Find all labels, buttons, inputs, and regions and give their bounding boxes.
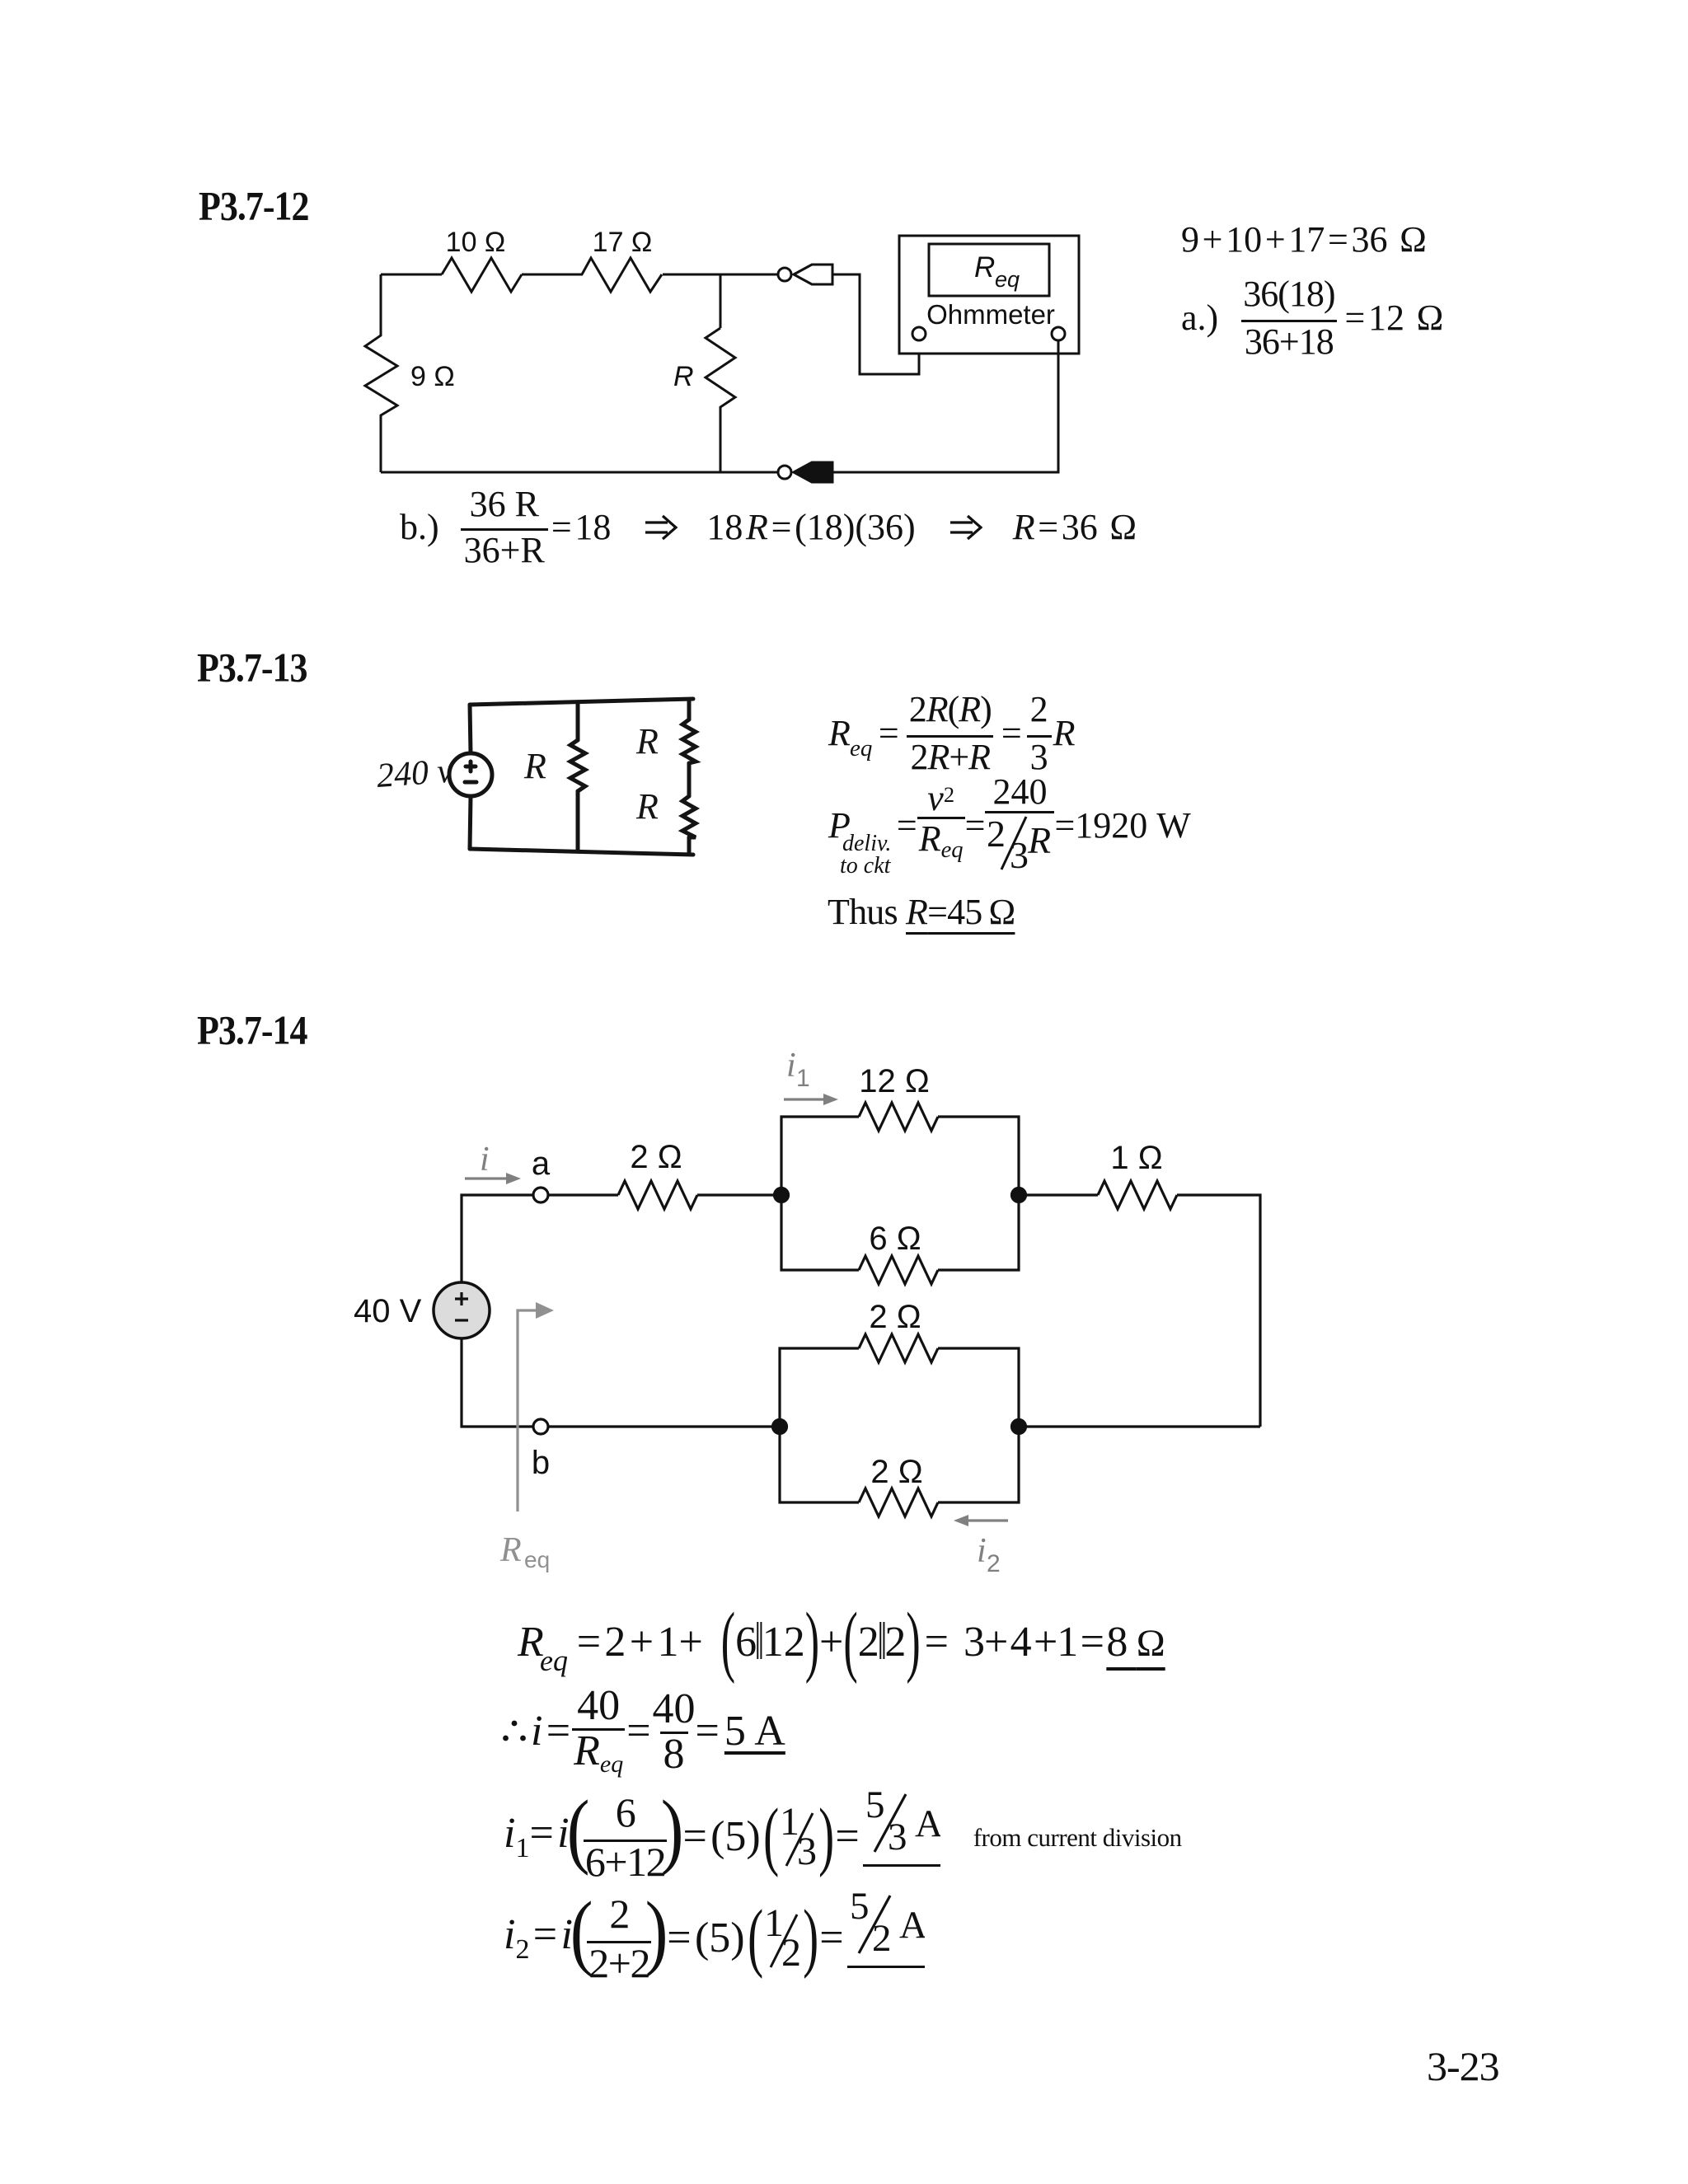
circuit P3.7-13 hand-drawn schematic xyxy=(363,684,717,878)
svg-text:R: R xyxy=(635,721,659,762)
wire node3 down branch 2ohm bottom xyxy=(780,1427,859,1502)
wire node1 up xyxy=(781,1117,859,1195)
equation Req = 2R(R)/2R+R xyxy=(828,695,1076,772)
heading P3.7-13 xyxy=(197,648,307,688)
svg-text:i: i xyxy=(786,1047,796,1085)
wire 2ohm to node1 xyxy=(697,1193,781,1196)
svg-text:R: R xyxy=(1027,819,1051,861)
heading P3.7-12 xyxy=(199,186,309,227)
wire top-left xyxy=(381,274,442,276)
svg-text:A: A xyxy=(915,1802,940,1845)
svg-text:R: R xyxy=(499,1531,522,1569)
svg-text:240 v: 240 v xyxy=(375,752,453,795)
svg-text:R: R xyxy=(635,786,659,827)
wire top xyxy=(470,699,693,705)
node b terminal xyxy=(533,1419,548,1434)
wire source top xyxy=(462,1195,533,1282)
svg-text:3: 3 xyxy=(888,1816,907,1855)
svg-text:40 V: 40 V xyxy=(354,1293,422,1329)
wire b to node3 xyxy=(548,1425,780,1427)
ohmmeter box xyxy=(899,236,1079,354)
svg-text:R: R xyxy=(673,361,694,392)
resistor 1ohm xyxy=(1098,1181,1177,1209)
svg-text:Ohmmeter: Ohmmeter xyxy=(926,299,1055,330)
connector circle top xyxy=(778,268,791,281)
plus sign xyxy=(466,762,476,771)
one third diagonal fraction xyxy=(780,1805,818,1869)
wire R bottom xyxy=(720,419,722,472)
svg-text:10 Ω: 10 Ω xyxy=(446,227,506,258)
svg-text:R: R xyxy=(523,746,546,786)
svg-text:3: 3 xyxy=(1010,834,1029,871)
svg-text:R: R xyxy=(974,251,995,284)
plus sign xyxy=(455,1292,468,1305)
svg-text:5: 5 xyxy=(865,1789,885,1826)
wire 1ohm to right edge xyxy=(1177,1195,1260,1427)
svg-text:2 Ω: 2 Ω xyxy=(870,1454,922,1490)
wire 12ohm right xyxy=(938,1117,1019,1195)
wire plug top to ohmmeter xyxy=(832,274,919,374)
wire source bottom xyxy=(470,796,471,849)
resistor R right-top xyxy=(682,719,696,763)
wire node4 to right edge xyxy=(1019,1425,1260,1427)
wire top right to plug xyxy=(663,274,778,276)
svg-text:eq: eq xyxy=(995,267,1020,292)
wire source bottom xyxy=(462,1338,533,1427)
svg-text:2: 2 xyxy=(987,815,1006,855)
resistor R xyxy=(706,328,735,419)
node 4 dot xyxy=(1012,1420,1026,1434)
therefore symbol xyxy=(503,1720,526,1743)
resistor 2ohm middle xyxy=(859,1334,938,1362)
plug open top xyxy=(794,265,832,284)
wire between 10ohm and 17ohm xyxy=(522,274,583,276)
five halves diagonal fraction underlined xyxy=(847,1891,925,1968)
equation Req = 2+1+ ... xyxy=(518,1610,1165,1675)
resistor 6ohm xyxy=(859,1256,938,1284)
svg-text:2: 2 xyxy=(781,1931,801,1971)
svg-text:eq: eq xyxy=(524,1547,550,1572)
resistor 2ohm bottom xyxy=(859,1488,938,1516)
terminal left xyxy=(912,327,926,340)
wire node2 to 1ohm xyxy=(1019,1193,1098,1196)
wire 2ohm middle right xyxy=(938,1348,1019,1427)
svg-text:9 Ω: 9 Ω xyxy=(410,361,455,392)
circuit P3.7-12 schematic xyxy=(354,216,1096,492)
equation P deliv xyxy=(828,785,1191,867)
node 1 dot xyxy=(775,1188,789,1202)
wire bottom xyxy=(381,471,778,474)
wire 2ohm bottom right xyxy=(938,1427,1019,1502)
implies arrow xyxy=(644,514,678,541)
node 3 dot xyxy=(773,1420,787,1434)
equation 9+10+17=36 xyxy=(1181,222,1427,258)
wire bottom xyxy=(470,849,693,855)
resistor 10ohm xyxy=(442,258,522,292)
ohmmeter display box xyxy=(929,244,1049,296)
Req measurement arrow xyxy=(518,1310,536,1511)
equation Thus R=45 xyxy=(828,894,1015,930)
svg-text:1 Ω: 1 Ω xyxy=(1110,1140,1162,1176)
right branch wire top xyxy=(687,700,692,719)
resistor 9ohm left vertical xyxy=(365,274,397,472)
svg-text:i: i xyxy=(977,1532,987,1570)
resistor R right-bottom xyxy=(682,796,696,837)
minus sign xyxy=(455,1319,468,1321)
plug filled bottom xyxy=(794,462,832,482)
svg-text:12 Ω: 12 Ω xyxy=(859,1063,930,1099)
equation i = 40/Req xyxy=(503,1692,785,1771)
svg-text:3: 3 xyxy=(797,1830,817,1869)
page number xyxy=(1427,2046,1499,2087)
svg-text:2: 2 xyxy=(872,1917,892,1957)
resistor 17ohm xyxy=(582,258,662,292)
wire node1 down to 6ohm xyxy=(781,1195,859,1270)
one half diagonal fraction xyxy=(764,1906,802,1971)
current i1 arrow xyxy=(784,1098,823,1100)
current i2 arrow xyxy=(968,1519,1008,1521)
wire right terminal down xyxy=(832,340,1058,472)
svg-text:17 Ω: 17 Ω xyxy=(593,227,653,258)
connector circle bottom xyxy=(778,466,791,479)
equation i1 current division xyxy=(504,1797,1182,1877)
wire node3 up branch 2ohm xyxy=(780,1348,859,1427)
svg-text:5: 5 xyxy=(850,1891,870,1928)
equation i2 current division xyxy=(504,1899,925,1978)
five thirds diagonal fraction underlined xyxy=(863,1789,940,1867)
middle branch wire bottom xyxy=(576,791,580,851)
wire a to 2ohm xyxy=(548,1193,618,1196)
svg-text:6 Ω: 6 Ω xyxy=(869,1221,921,1257)
heading P3.7-14 xyxy=(197,1010,307,1051)
voltage source 40V xyxy=(434,1282,490,1338)
voltage source 240v circle xyxy=(449,753,492,796)
wire source top xyxy=(470,705,471,753)
current i arrow xyxy=(465,1177,506,1179)
svg-text:A: A xyxy=(899,1904,925,1947)
terminal right xyxy=(1052,327,1065,340)
equation a.) xyxy=(1181,279,1443,358)
resistor 2ohm top xyxy=(618,1181,697,1209)
node junction vertical R top xyxy=(720,274,722,328)
svg-text:2: 2 xyxy=(987,1550,1001,1577)
minus sign xyxy=(465,780,476,785)
wire between right resistors xyxy=(687,763,692,796)
implies arrow xyxy=(949,514,983,541)
svg-text:1: 1 xyxy=(796,1065,810,1092)
svg-text:b: b xyxy=(532,1445,550,1481)
node 2 dot xyxy=(1012,1188,1026,1202)
svg-text:i: i xyxy=(480,1141,490,1179)
middle branch wire top xyxy=(576,702,580,740)
resistor R middle xyxy=(570,740,585,791)
svg-text:2 Ω: 2 Ω xyxy=(630,1139,682,1175)
circuit P3.7-14 schematic xyxy=(338,1047,1302,1586)
wire 6ohm right xyxy=(938,1195,1019,1270)
equation b.) xyxy=(400,491,1137,564)
svg-text:2 Ω: 2 Ω xyxy=(869,1299,921,1335)
node a terminal xyxy=(533,1188,548,1202)
right branch wire bottom xyxy=(687,837,692,854)
resistor 12ohm xyxy=(859,1103,938,1131)
svg-text:a: a xyxy=(532,1146,551,1182)
